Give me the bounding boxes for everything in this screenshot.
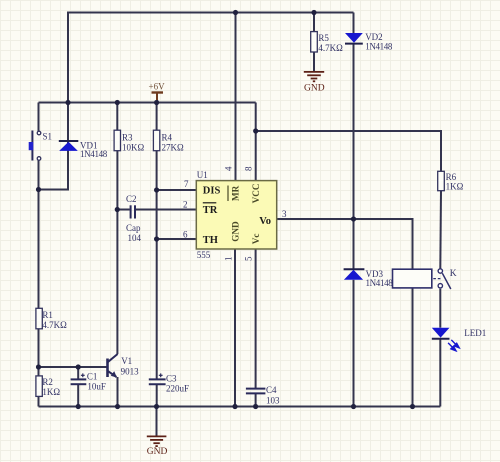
diode VD3 — [344, 269, 365, 280]
wire relay bottom — [412, 288, 414, 407]
svg-text:8: 8 — [244, 166, 254, 171]
wire switch to LED1 — [439, 289, 441, 328]
svg-text:7: 7 — [184, 179, 189, 189]
svg-text:U1: U1 — [197, 170, 208, 180]
svg-text:C3: C3 — [166, 373, 177, 383]
LED LED1 — [432, 328, 450, 339]
wire R6 to switch — [439, 191, 442, 269]
label MR rotated — [228, 185, 241, 201]
wire VD1 branch vertical — [39, 12, 69, 190]
svg-text:Vo: Vo — [259, 216, 271, 227]
svg-text:2: 2 — [183, 200, 188, 210]
svg-text:S1: S1 — [43, 132, 53, 142]
wire VCC-R6 horizontal — [256, 131, 441, 171]
svg-text:V1: V1 — [121, 356, 132, 366]
svg-text:TR: TR — [203, 205, 218, 216]
svg-text:5: 5 — [244, 256, 254, 261]
svg-text:TH: TH — [203, 235, 218, 246]
svg-text:4.7KΩ: 4.7KΩ — [318, 43, 343, 53]
wire C1 top stub — [77, 367, 79, 379]
svg-text:R1: R1 — [42, 310, 53, 320]
capacitor C3 polarized — [149, 379, 166, 384]
svg-text:1KΩ: 1KΩ — [42, 387, 60, 397]
wire pin6 TH — [157, 238, 197, 240]
wire R4 stub top — [156, 103, 158, 131]
svg-text:C1: C1 — [87, 371, 98, 381]
svg-text:C4: C4 — [266, 385, 277, 395]
svg-text:GND: GND — [147, 447, 168, 457]
wire V1 emitter to bottom rail — [117, 377, 119, 407]
wire VD3 to bottom rail — [353, 280, 355, 407]
diode VD1 — [59, 141, 79, 151]
wire pin4 MR line from top rail — [235, 13, 237, 181]
wire C1 bottom stub — [77, 385, 79, 407]
wire top rail +6V — [68, 12, 354, 14]
wire R4 bottom to DIS junction — [156, 151, 158, 190]
wire pin5 Vc line to C4 — [255, 249, 257, 388]
wire bottom ground rail — [39, 406, 441, 408]
svg-text:GND: GND — [304, 84, 325, 94]
wire R1 to R2 — [38, 328, 40, 376]
wire left rail S1 column — [38, 103, 40, 132]
svg-text:VCC: VCC — [251, 183, 261, 203]
wire C2 left — [117, 209, 130, 211]
resistor R4 — [153, 130, 159, 151]
capacitor C2 — [131, 205, 135, 218]
resistor R5 — [311, 32, 318, 52]
wire GND stub bottom — [156, 407, 158, 436]
svg-text:103: 103 — [266, 396, 280, 406]
svg-text:R4: R4 — [162, 133, 173, 143]
plus sign C1 — [81, 373, 85, 377]
resistor R2 — [36, 376, 42, 397]
wire S1 bottom to R1 — [38, 160, 40, 308]
svg-text:VD2: VD2 — [365, 32, 383, 42]
svg-text:R5: R5 — [318, 33, 329, 43]
svg-text:R3: R3 — [122, 133, 133, 143]
wire R2 to bottom rail — [38, 396, 40, 407]
svg-text:1KΩ: 1KΩ — [446, 182, 464, 192]
svg-text:1: 1 — [224, 257, 234, 262]
plus sign C3 — [159, 373, 163, 377]
wire C4 bottom stub — [255, 394, 257, 407]
svg-text:+6V: +6V — [149, 82, 166, 92]
wire pin1 GND line — [234, 249, 236, 407]
svg-text:Cap: Cap — [126, 223, 141, 233]
svg-text:1N4148: 1N4148 — [80, 149, 108, 159]
relay K coil — [393, 269, 432, 288]
wire R5 to GND — [313, 52, 315, 71]
resistor R6 — [438, 171, 445, 190]
svg-text:1N4148: 1N4148 — [366, 278, 394, 288]
svg-text:3: 3 — [282, 209, 287, 219]
svg-text:R2: R2 — [42, 377, 53, 387]
svg-text:1N4148: 1N4148 — [365, 42, 393, 52]
capacitor C4 — [246, 389, 266, 394]
wire C2 right to pin2 — [136, 209, 197, 211]
capacitor C1 polarized — [71, 379, 87, 384]
svg-text:DIS: DIS — [203, 186, 221, 197]
wire pin3 Vo to relay — [277, 219, 413, 269]
wire TH down to C3 — [156, 239, 158, 379]
wire LED1 to bottom rail — [439, 339, 441, 406]
svg-text:R6: R6 — [446, 172, 457, 182]
wire DIS to TH vertical — [156, 190, 158, 239]
wire R3 bottom to V1 collector — [116, 151, 118, 354]
resistor R1 — [36, 308, 42, 329]
ground GND top — [304, 71, 324, 81]
svg-text:104: 104 — [128, 233, 142, 243]
relay K contacts — [438, 269, 451, 289]
svg-text:LED1: LED1 — [464, 328, 486, 338]
wire +6V horizontal rail — [39, 102, 256, 104]
svg-text:555: 555 — [197, 250, 211, 260]
svg-text:220uF: 220uF — [166, 383, 189, 393]
svg-text:10uF: 10uF — [87, 381, 106, 391]
svg-text:K: K — [450, 269, 457, 279]
svg-text:9013: 9013 — [121, 367, 140, 377]
svg-text:Vc: Vc — [251, 233, 261, 244]
wire C3 bottom stub — [156, 385, 158, 407]
wire +6V stem lower — [156, 99, 158, 103]
svg-text:4.7KΩ: 4.7KΩ — [42, 320, 67, 330]
resistor R3 — [114, 130, 120, 151]
wire V1 base wire — [39, 366, 108, 368]
wire VD2 to Vo junction — [353, 44, 355, 270]
LED1 arrows — [448, 340, 459, 351]
relay K dashed link — [433, 278, 440, 280]
svg-text:10KΩ: 10KΩ — [122, 143, 144, 153]
svg-text:6: 6 — [183, 230, 188, 240]
transistor V1 — [108, 354, 118, 377]
power +6V — [149, 82, 166, 101]
svg-text:MR: MR — [231, 185, 241, 201]
wire R3 stub top — [116, 103, 118, 131]
svg-text:C2: C2 — [126, 194, 137, 204]
label TR — [203, 203, 218, 216]
wire VD2 line — [353, 13, 355, 34]
svg-text:GND: GND — [231, 221, 241, 242]
diode VD2 — [345, 33, 363, 44]
ground GND bottom — [147, 436, 167, 446]
wire R5 stub — [313, 13, 315, 32]
switch S1 — [29, 131, 41, 161]
svg-text:27KΩ: 27KΩ — [162, 143, 184, 153]
svg-text:4: 4 — [224, 166, 234, 171]
op-amp U1 555 body — [196, 181, 276, 249]
wire pin8 VCC line — [255, 103, 257, 181]
transistor V1 emitter arrow — [111, 371, 117, 377]
wire pin7 DIS — [157, 189, 197, 191]
